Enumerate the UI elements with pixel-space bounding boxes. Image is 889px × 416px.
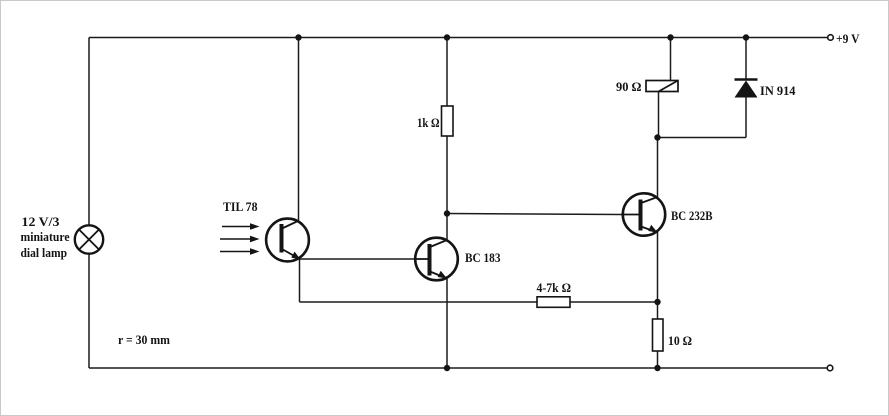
wire 10 ohm bottom lead [657,351,659,368]
terminal +9V [828,35,834,41]
wire node to diode bottom [658,137,747,139]
wire TIL78 emitter down [299,259,301,302]
wire BC183 collector [446,214,448,241]
svg-text:90 Ω: 90 Ω [616,80,642,94]
wire 1k resistor bottom lead [446,136,448,214]
node relay top / top rail [667,34,673,40]
node TIL78 collector / top rail [295,34,301,40]
node BC183 emitter / bottom rail [444,365,450,371]
wire bottom row right of 4-7k resistor [570,301,658,303]
svg-text:dial lamp: dial lamp [21,246,68,260]
wire top rail [89,37,828,39]
terminal bottom right [827,365,833,371]
svg-text:BC 232B: BC 232B [671,209,713,223]
wire 10 ohm top lead [657,302,659,319]
transistor BC 232B [621,193,665,235]
node diode top / top rail [743,34,749,40]
resistor 4-7k [537,297,570,308]
resistor 10 ohm [653,319,664,351]
svg-text:miniature: miniature [21,230,70,244]
svg-text:IN 914: IN 914 [760,84,796,98]
wire node to BC232B base [447,214,621,215]
svg-text:1k Ω: 1k Ω [417,116,440,130]
wire BC232B collector [657,138,659,199]
wire BC232B emitter [657,232,659,303]
lamp label [21,215,70,260]
diode IN 914 [735,80,758,98]
resistor 1k [442,106,454,136]
node 10 ohm bottom / bottom rail [654,365,660,371]
wire BC183 emitter [446,278,448,369]
svg-text:+9 V: +9 V [836,32,860,46]
node 1k bottom / BC183 collector / BC232B base [444,210,450,216]
wire TIL78 emitter to BC183 base [301,258,416,260]
wire TIL78 collector [298,38,300,222]
wire relay top lead [670,38,672,81]
transistor BC 183 [415,238,458,281]
wire diode top lead [745,38,747,80]
wire bottom rail [89,367,827,369]
wire left vertical lower [88,254,90,369]
light arrows [220,223,260,255]
wire 1k resistor top lead [446,38,448,107]
wire relay bottom lead [658,92,660,138]
phototransistor TIL 78 [266,219,309,262]
node BC232B emitter / 4-7k / 10 ohm [654,299,660,305]
wire left vertical upper [88,38,90,226]
svg-text:4-7k Ω: 4-7k Ω [537,281,572,295]
svg-text:TIL 78: TIL 78 [223,200,258,214]
lamp 12V/3 miniature dial lamp [75,225,103,253]
svg-text:12 V/3: 12 V/3 [22,215,60,229]
wire bottom row left of 4-7k resistor [300,301,538,303]
svg-text:r = 30 mm: r = 30 mm [118,333,171,347]
node 1k top / top rail [444,34,450,40]
relay coil 90 ohm [646,81,678,92]
svg-text:BC 183: BC 183 [465,251,501,265]
wire diode bottom lead [745,97,747,138]
svg-text:10 Ω: 10 Ω [668,334,692,348]
node relay bottom / diode / BC232B collector [654,134,660,140]
